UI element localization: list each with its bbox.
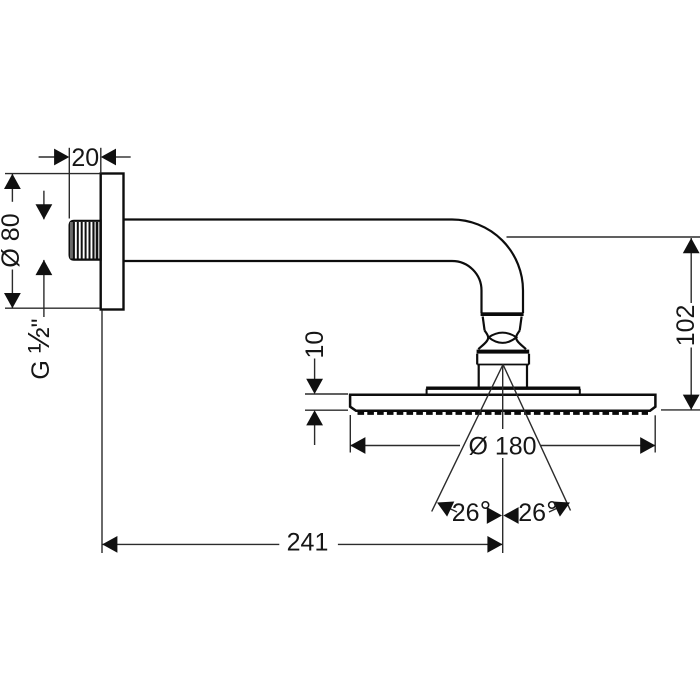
- svg-text:26°: 26°: [452, 496, 491, 528]
- svg-text:20: 20: [71, 144, 99, 172]
- svg-text:Ø 80: Ø 80: [0, 213, 25, 267]
- svg-text:26°: 26°: [518, 496, 557, 528]
- svg-text:10: 10: [301, 331, 329, 359]
- svg-text:241: 241: [287, 528, 329, 556]
- svg-text:G ½": G ½": [21, 318, 56, 379]
- svg-text:Ø 180: Ø 180: [468, 432, 536, 460]
- svg-text:102: 102: [672, 305, 700, 347]
